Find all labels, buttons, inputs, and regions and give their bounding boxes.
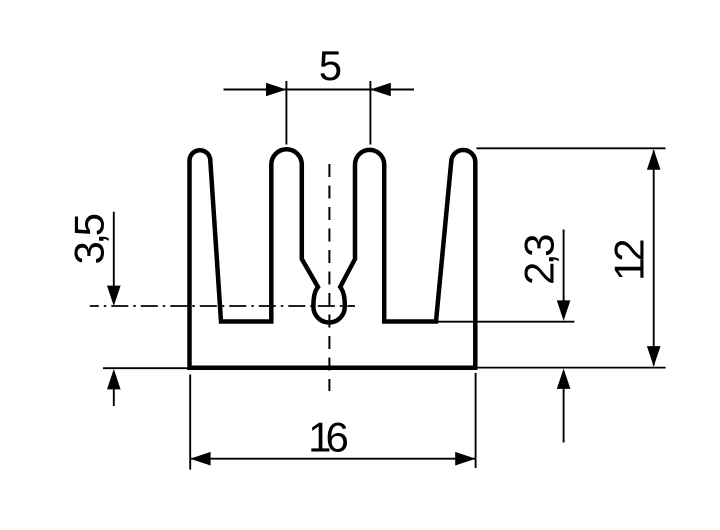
dim 2,3: top extension line <box>436 321 574 323</box>
dim 16: dimension line <box>191 458 475 460</box>
dim 16: right extension line <box>475 373 477 468</box>
dim 3,5: upper dimension line segment <box>113 212 115 300</box>
dim 2,3: lower dimension line segment <box>563 374 565 443</box>
dim 12: up arrowhead <box>647 149 661 169</box>
dim 3,5: bottom extension line <box>103 367 189 369</box>
dim 12: down arrowhead <box>647 346 661 366</box>
dim 12: bottom extension line <box>477 367 666 369</box>
dim 16: left arrowhead <box>190 452 210 466</box>
dim 2,3: down arrowhead <box>557 300 571 320</box>
dim 2,3: up arrowhead <box>557 369 571 389</box>
dim 5: extension line right <box>369 81 371 145</box>
vertical centerline (dashed) <box>328 164 330 391</box>
dim 3,5: down arrowhead <box>107 286 121 306</box>
horizontal center axis (dash-dot) <box>90 305 355 307</box>
dim 3,5: lower dimension line segment <box>113 375 115 406</box>
dim 3,5: up arrowhead <box>107 369 121 389</box>
dim 5: left arrowhead <box>266 83 286 97</box>
dim 12: dimension line <box>653 151 655 366</box>
svg-text:3,5: 3,5 <box>66 214 113 264</box>
dim 5: right arrowhead <box>370 83 390 97</box>
svg-text:16: 16 <box>308 413 347 460</box>
dim 16: right arrowhead <box>455 452 475 466</box>
dim 5: extension line left <box>285 81 287 145</box>
dim 12: top extension line <box>477 147 666 149</box>
svg-text:12: 12 <box>606 240 653 281</box>
svg-text:2,3: 2,3 <box>516 235 563 285</box>
dim 16: left extension line <box>189 375 191 470</box>
dim 5: dimension line <box>224 89 415 91</box>
svg-text:5: 5 <box>319 42 342 89</box>
heatsink profile outline <box>190 149 476 367</box>
dim 2,3: upper dimension line segment <box>563 230 565 316</box>
